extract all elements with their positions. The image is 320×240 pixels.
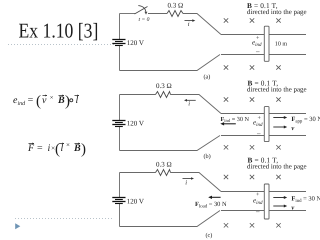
applied force arrow upper right (b) [273,117,285,119]
wire top segment (b) [120,94,156,96]
svg-text:×: × [50,95,54,102]
svg-text:i: i [188,101,190,108]
flux cross marks top row (a) [224,18,281,22]
induced force arrow left (b) [223,123,236,125]
svg-text:–: – [255,208,260,216]
flux cross marks bottom row (c) [224,223,281,227]
wire left vertical above battery (b) [119,95,121,121]
svg-text:(a): (a) [204,73,211,80]
title dotted underline [8,44,114,46]
resistor R (b) [156,92,171,98]
rail top (a) [221,34,306,36]
svg-text:directed into the page: directed into the page [247,164,307,171]
svg-text:–: – [255,47,260,55]
svg-text:v: v [291,125,294,132]
svg-text:10 m: 10 m [275,41,288,48]
footer dotted line [15,218,112,220]
wire resistor-to-corner and diagonal to top rail (c) [171,173,222,192]
rail bottom (a) [221,54,306,56]
rail top (b) [221,113,306,115]
svg-text:120 V: 120 V [127,120,144,128]
battery V (b) [112,121,125,127]
wire switch-to-resistor (a) [148,13,167,15]
svg-text:l: l [76,95,79,106]
resistor R (a) [167,11,183,17]
svg-text:i: i [185,180,187,187]
flux cross marks top row (c) [224,175,281,179]
wire top-left segment (a) [120,13,136,15]
svg-text:0.3 Ω: 0.3 Ω [156,161,172,169]
footer bullet triangle [15,223,20,229]
velocity arrow lower right (b) [273,126,285,128]
svg-text:v: v [42,95,47,106]
switch S (a) [135,6,148,14]
current arrow i pointing left (b) [186,99,196,101]
wire left vertical above battery (c) [119,173,121,198]
svg-text:): ) [81,142,86,158]
equation F = i x (l x B) [27,141,86,158]
svg-text:120 V: 120 V [127,198,144,206]
svg-text:F: F [27,143,35,154]
wire bottom and diagonal to bottom rail (c) [120,211,221,227]
wire left vertical above battery (a) [119,14,121,40]
svg-text:B: B [73,143,81,154]
svg-text:directed into the page: directed into the page [247,9,307,16]
svg-text:(c): (c) [206,232,213,239]
wire resistor-to-corner and diagonal to top rail (a) [183,14,221,35]
svg-text:): ) [65,94,70,110]
svg-text:=: = [37,143,43,154]
svg-text:0.3 Ω: 0.3 Ω [156,82,172,90]
wire top segment (c) [120,172,156,174]
svg-text:×: × [66,141,70,149]
velocity arrow lower right (c) [273,205,285,207]
svg-text:–: – [256,130,261,138]
wire left vertical below battery (b) [119,127,121,151]
wire bottom and diagonal to bottom rail (a) [120,55,221,71]
flux cross marks bottom row (b) [224,145,281,149]
svg-text:l: l [61,143,64,154]
equation e_ind = (v x B) . l [13,94,79,110]
svg-text:120 V: 120 V [127,39,144,47]
svg-text:(: ( [36,94,41,110]
wire resistor-to-corner and diagonal to top rail (b) [171,95,222,114]
svg-text:Ex 1.10 [3]: Ex 1.10 [3] [19,18,99,42]
svg-text:0.3 Ω: 0.3 Ω [168,2,184,10]
svg-text:(b): (b) [204,153,211,160]
svg-text:t = 0: t = 0 [139,17,150,23]
sliding bar (a) [264,26,269,61]
svg-text:directed into the page: directed into the page [247,86,307,93]
load force arrow left (c) [211,196,221,198]
battery V (c) [112,198,125,204]
rail bottom (c) [221,210,306,212]
resistor R (c) [156,170,171,176]
sliding bar (b) [264,107,269,142]
battery V (a) [112,40,125,46]
current arrow i (a) [185,20,194,22]
induced force arrow upper right (c) [273,197,285,199]
flux cross marks bottom row (a) [224,65,281,69]
svg-text:i: i [188,21,190,28]
sliding bar (c) [264,184,269,219]
wire left vertical below battery (a) [119,46,121,71]
svg-text:B: B [57,95,65,106]
current arrow i pointing right (c) [183,178,193,180]
wire left vertical below battery (c) [119,204,121,227]
flux cross marks top row (b) [224,97,281,101]
wire bottom and diagonal to bottom rail (b) [120,136,221,151]
rail top (c) [221,191,306,193]
svg-text:(: ( [55,142,60,158]
rail bottom (b) [221,135,306,137]
svg-text:v: v [291,205,294,212]
